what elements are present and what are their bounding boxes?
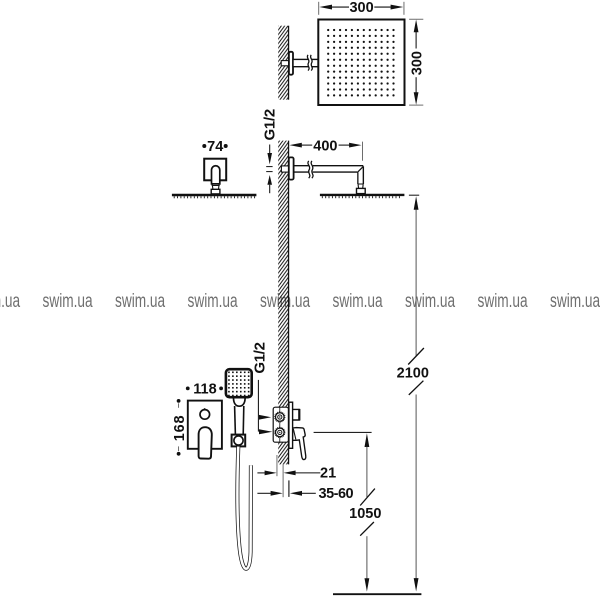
nozzle ticks (ceiling head)	[174, 196, 254, 198]
shower head top view 300x300	[318, 20, 404, 106]
svg-text:118: 118	[193, 382, 216, 398]
svg-text:35-60: 35-60	[319, 486, 354, 502]
svg-text:1050: 1050	[349, 506, 381, 522]
svg-text:swim.ua: swim.ua	[550, 290, 600, 312]
ceiling escutcheon 74	[204, 159, 226, 181]
svg-text:168: 168	[172, 415, 188, 442]
dimension 400	[362, 142, 364, 161]
ceiling shower head side line	[172, 194, 257, 196]
dimension 2100	[409, 194, 419, 196]
dimension 21	[257, 472, 265, 474]
extension lines below valve	[276, 455, 278, 476]
mixer diverter knob	[200, 410, 210, 420]
arm nut	[357, 188, 366, 193]
wall escutcheon (side view)	[289, 157, 294, 179]
ceiling nut	[211, 189, 220, 194]
wall hatch lower segment	[278, 141, 288, 465]
hand shower head	[226, 369, 252, 397]
svg-text:21: 21	[320, 466, 336, 482]
svg-text:swim.ua: swim.ua	[0, 290, 21, 312]
hand shower handle	[234, 406, 237, 435]
svg-text:G1/2: G1/2	[262, 109, 279, 140]
svg-text:2100: 2100	[397, 365, 429, 381]
shower hose loop	[237, 447, 251, 569]
svg-text:300: 300	[409, 51, 425, 75]
shower head side view	[320, 194, 405, 196]
svg-text:74: 74	[207, 139, 223, 155]
mixer lever side view	[293, 428, 306, 460]
diverter knob side view	[293, 409, 300, 420]
dimension 35-60	[257, 492, 271, 494]
spray nozzle grid 12x12	[327, 29, 395, 97]
arm cone joint	[358, 184, 363, 188]
svg-text:swim.ua: swim.ua	[188, 290, 239, 312]
through-wall pipe (side view)	[281, 166, 288, 172]
valve inlet knob upper	[275, 412, 285, 422]
svg-text:swim.ua: swim.ua	[115, 290, 166, 312]
mixer lever handle front view	[199, 427, 212, 459]
floor line	[333, 593, 421, 595]
svg-text:400: 400	[313, 138, 337, 154]
ceiling arm end-on	[212, 166, 220, 184]
svg-text:G1/2: G1/2	[251, 342, 268, 373]
hand shower neck collar	[234, 398, 246, 406]
svg-text:swim.ua: swim.ua	[43, 290, 94, 312]
dimension 300 width	[318, 2, 320, 15]
valve inlet knob lower	[275, 427, 285, 437]
svg-text:300: 300	[349, 0, 373, 16]
wall line lower segment	[288, 141, 290, 465]
holder circle	[234, 436, 243, 445]
dimension 118	[186, 386, 190, 390]
dimension 1050	[314, 431, 372, 433]
wall escutcheon (top view)	[289, 52, 293, 75]
svg-text:swim.ua: swim.ua	[405, 290, 456, 312]
wall line upper segment	[288, 26, 290, 100]
break symbol on arm (side view)	[309, 164, 312, 174]
dimension 168	[177, 399, 181, 403]
through-wall pipe (top view)	[281, 61, 288, 66]
hand shower spray dots	[228, 372, 249, 397]
nozzle ticks (side view head)	[322, 196, 399, 198]
dimension 74	[202, 144, 206, 148]
ceiling cone joint	[212, 184, 220, 189]
wall hatch upper segment	[278, 26, 288, 100]
shower arm side view	[294, 165, 364, 167]
shower arm (top view)	[293, 59, 318, 66]
hand shower holder bracket	[232, 435, 246, 447]
watermark row swim.ua	[0, 290, 600, 312]
mixer trim plate front view	[188, 401, 222, 449]
concealed valve body in wall	[273, 407, 288, 442]
svg-text:swim.ua: swim.ua	[478, 290, 529, 312]
break symbol on arm (top view)	[309, 55, 312, 70]
mixer trim plate side view	[289, 402, 293, 448]
svg-text:swim.ua: swim.ua	[333, 290, 384, 312]
dimension 300 height	[409, 18, 423, 20]
